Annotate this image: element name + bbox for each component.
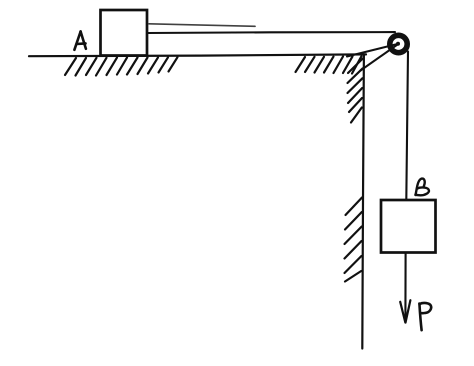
ground hatching group 2 (near corner) bbox=[296, 56, 362, 73]
label P bbox=[419, 303, 431, 330]
pulley support bracket line 2 (to wall) bbox=[361, 45, 398, 71]
ground (table top surface line) bbox=[29, 54, 366, 56]
rope second strand near block A bbox=[149, 24, 255, 27]
label B bbox=[414, 179, 429, 197]
label A bbox=[74, 32, 86, 50]
wall (table right edge line) bbox=[362, 54, 364, 348]
rope below block B (force line) bbox=[404, 253, 406, 321]
ground hatching group 1 bbox=[65, 57, 178, 75]
rope from block A to pulley (main strand) bbox=[148, 31, 395, 34]
wall hatching group 1 bbox=[348, 59, 363, 123]
pulley axle dot bbox=[396, 42, 400, 46]
arrowhead of force P bbox=[400, 302, 405, 323]
pulley support bracket line 1 (to table top) bbox=[347, 44, 398, 57]
rope from pulley down to block B bbox=[406, 52, 408, 201]
wall hatching group 2 bbox=[345, 198, 363, 282]
block A bbox=[101, 10, 148, 56]
block B bbox=[381, 200, 436, 253]
pulley wheel bbox=[390, 35, 407, 52]
